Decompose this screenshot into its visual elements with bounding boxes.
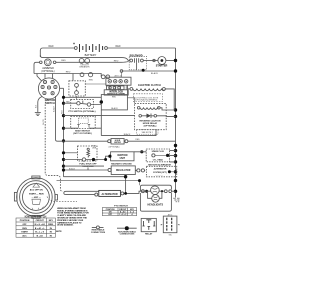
wire top bottom-run <box>57 181 140 186</box>
svg-text:— KEY —: — KEY — <box>32 197 41 199</box>
wire box B to ROS box <box>127 98 134 104</box>
relay box <box>141 218 156 231</box>
ROS dashed module box <box>135 103 176 129</box>
svg-text:POSITION: POSITION <box>20 220 30 222</box>
svg-text:BREAKER: BREAKER <box>80 65 90 68</box>
non-removable legend <box>117 226 137 230</box>
svg-text:A B C D: A B C D <box>114 74 122 77</box>
ignition unit box <box>111 152 134 161</box>
note leader dashed <box>47 197 77 202</box>
second terminal row <box>107 86 125 90</box>
svg-text:B + A1: B + A1 <box>37 234 44 237</box>
dashed caution box right of ignition unit <box>146 149 169 162</box>
svg-text:ACC: ACC <box>22 234 27 237</box>
svg-text:START — RUN: START — RUN <box>29 193 44 196</box>
svg-text:- - - - - - - -: - - - - - - - - <box>155 175 163 177</box>
junction dot on box B <box>100 100 103 103</box>
svg-text:RED: RED <box>135 139 140 141</box>
svg-text:BATTERY: BATTERY <box>85 53 97 57</box>
fuel solenoid lower stub <box>87 168 89 171</box>
fuse circles on harness run <box>80 73 93 77</box>
bottom-right connector pinout <box>161 216 180 233</box>
wire row 166 <box>64 165 105 167</box>
svg-text:SYSTEM (OPT.): SYSTEM (OPT.) <box>153 172 167 174</box>
wire fuel row <box>64 156 111 159</box>
svg-text:NOTE: NOTE <box>56 231 62 233</box>
svg-text:REGULATOR: REGULATOR <box>116 169 131 172</box>
svg-text:REM.: REM. <box>48 224 53 226</box>
svg-text:ELECTRIC CLUTCH: ELECTRIC CLUTCH <box>138 84 161 87</box>
right bus wire <box>175 48 177 198</box>
circuit breaker CB <box>79 59 89 64</box>
wire seat row <box>64 127 102 129</box>
svg-text:(OPTIONAL): (OPTIONAL) <box>144 124 157 127</box>
wires ignition unit to bus <box>134 151 176 162</box>
wire fuel coil row <box>64 152 78 154</box>
key switch connector (round) <box>38 78 59 99</box>
svg-text:PTO SWITCH: PTO SWITCH <box>114 206 128 208</box>
alternator dashed box <box>146 166 176 177</box>
wire black return run <box>122 70 176 72</box>
solenoid SOL <box>129 56 158 70</box>
wire connector right to L2 bus <box>60 87 64 89</box>
svg-text:B + L + S: B + L + S <box>35 232 44 234</box>
svg-text:RED: RED <box>48 45 53 48</box>
wire lightswitch down <box>76 96 78 99</box>
regulator box <box>108 166 145 175</box>
ignition switch face (big circle) <box>14 176 57 218</box>
wire L2 to box B <box>64 96 102 98</box>
battery B1 <box>73 43 107 53</box>
svg-text:SEE NOTE 2: SEE NOTE 2 <box>142 132 153 134</box>
junction dot <box>92 158 95 161</box>
svg-text:METER: METER <box>114 142 121 144</box>
svg-text:BLACK: BLACK <box>151 72 159 75</box>
table text <box>20 220 54 237</box>
wire connector to ground <box>38 97 42 113</box>
svg-text:SWITCH: SWITCH <box>45 102 55 105</box>
alternator loop wires <box>66 190 99 192</box>
svg-text:START: START <box>21 231 28 234</box>
warning note text block <box>56 207 89 233</box>
svg-text:RED: RED <box>112 97 117 99</box>
svg-text:A + A1: A + A1 <box>120 211 126 214</box>
ground left <box>35 113 41 116</box>
wire PTO row <box>64 103 102 104</box>
svg-text:1 + 2 + 3: 1 + 2 + 3 <box>119 214 126 216</box>
wire lightswitch up <box>72 74 74 81</box>
hour meter box <box>64 139 176 145</box>
svg-text:POSITION: POSITION <box>106 209 115 211</box>
svg-text:4: 4 <box>132 213 133 216</box>
svg-text:ACC OFF ON: ACC OFF ON <box>30 189 43 192</box>
svg-text:(OPTIONAL): (OPTIONAL) <box>41 70 54 73</box>
risers key box to module <box>110 85 126 90</box>
svg-text:STARTER: STARTER <box>156 65 168 68</box>
svg-text:RELAY: RELAY <box>145 232 153 235</box>
wires from connector up <box>37 74 53 81</box>
ground right bus <box>173 198 179 202</box>
L2 bus wire <box>63 88 65 176</box>
mid vertical wire <box>101 110 156 136</box>
svg-text:RUN: RUN <box>22 228 27 230</box>
svg-text:RED: RED <box>61 60 66 62</box>
seat switch dashed box <box>71 116 96 128</box>
bus junction dots <box>174 59 177 193</box>
svg-text:M + G + A1: M + G + A1 <box>35 223 46 226</box>
interlock module box <box>104 90 128 95</box>
svg-text:SPARK PLUG: SPARK PLUG <box>152 150 165 153</box>
svg-text:SOLENOID: SOLENOID <box>129 55 142 58</box>
svg-text:HEADLIGHTS: HEADLIGHTS <box>148 203 164 206</box>
fuel shutoff dashed box <box>78 146 98 161</box>
headlights loop <box>140 185 175 211</box>
svg-text:CYL. HEAD: CYL. HEAD <box>153 159 164 162</box>
svg-text:BLACK: BLACK <box>124 133 131 136</box>
svg-text:LINE: LINE <box>92 148 97 150</box>
dashed light switch box <box>69 81 85 96</box>
wire second run to solenoid <box>40 55 130 61</box>
electric clutch coil <box>128 85 175 110</box>
svg-text:KEY: KEY <box>49 220 54 222</box>
svg-text:RED: RED <box>89 80 94 82</box>
wire L2 to regulator <box>64 169 109 171</box>
svg-text:IGNITION: IGNITION <box>117 155 128 157</box>
L1 bus wire (connector pin down) <box>56 96 64 141</box>
svg-text:A B C: A B C <box>168 214 173 217</box>
wire ammeter run <box>34 61 129 73</box>
svg-text:ALTERNATOR: ALTERNATOR <box>154 168 167 171</box>
junction dot <box>142 69 145 72</box>
L2 junction dots <box>62 102 65 168</box>
dashed wire from connector down <box>45 100 63 192</box>
svg-text:SEE NOTE ALTERNATOR: SEE NOTE ALTERNATOR <box>148 164 171 167</box>
svg-text:RED: RED <box>66 72 71 74</box>
svg-text:PTO SWITCH (OPTIONAL): PTO SWITCH (OPTIONAL) <box>68 110 95 113</box>
svg-text:CONNECTIONS: CONNECTIONS <box>120 234 135 236</box>
svg-text:UNIT: UNIT <box>120 158 126 160</box>
svg-text:CIRCUIT: CIRCUIT <box>36 220 45 222</box>
wire alt box to bus <box>169 171 175 173</box>
wire top harness run <box>34 74 101 77</box>
headlight lamp 2 <box>152 195 160 203</box>
wire fuse link <box>85 83 106 85</box>
svg-text:WHITE: WHITE <box>43 118 45 125</box>
svg-text:BLACK: BLACK <box>69 167 76 170</box>
svg-text:BLACK: BLACK <box>52 105 55 112</box>
svg-text:AMMETER: AMMETER <box>42 67 54 70</box>
svg-text:2 + 3: 2 + 3 <box>130 212 134 214</box>
dashed note under clutch <box>134 94 163 102</box>
alternator box <box>95 190 141 196</box>
svg-text:RED: RED <box>115 45 120 48</box>
svg-text:(OPTIONAL EQUIPMENT): (OPTIONAL EQUIPMENT) <box>135 98 158 101</box>
PTO switch dashed box <box>71 99 94 108</box>
wire below regulator <box>64 177 126 194</box>
wire row to ROS module <box>64 115 135 117</box>
svg-text:CONNECTORS: CONNECTORS <box>91 232 106 234</box>
wire battery top run <box>40 48 175 57</box>
ignition switch table <box>16 218 55 237</box>
headlight lamp 1 <box>151 186 160 195</box>
ammeter M1 <box>40 59 56 66</box>
fuse circles at key box <box>101 75 110 79</box>
svg-text:BLACK: BLACK <box>111 107 118 110</box>
svg-text:B + A1 + L: B + A1 + L <box>35 227 45 230</box>
svg-text:AVOID DAMAGE.: AVOID DAMAGE. <box>57 224 74 227</box>
svg-text:MAGNETO GROUND: MAGNETO GROUND <box>111 163 132 166</box>
svg-text:RED: RED <box>114 61 119 63</box>
svg-text:(OPTIONAL): (OPTIONAL) <box>109 145 120 148</box>
key switch terminal box <box>106 77 131 85</box>
svg-text:ALTERNATOR: ALTERNATOR <box>102 193 118 196</box>
harness box B <box>101 95 127 110</box>
removable connector legend <box>92 226 104 229</box>
starter motor <box>158 57 176 65</box>
svg-text:(NOT OCCUPIED): (NOT OCCUPIED) <box>73 133 92 135</box>
svg-text:CIRCUIT: CIRCUIT <box>119 209 127 211</box>
